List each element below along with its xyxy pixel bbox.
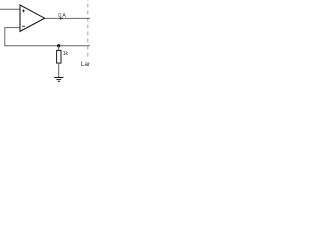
svg-text:0 A: 0 A bbox=[58, 13, 66, 19]
svg-text:Lamp: Lamp bbox=[81, 61, 90, 68]
svg-text:1k: 1k bbox=[63, 51, 69, 57]
